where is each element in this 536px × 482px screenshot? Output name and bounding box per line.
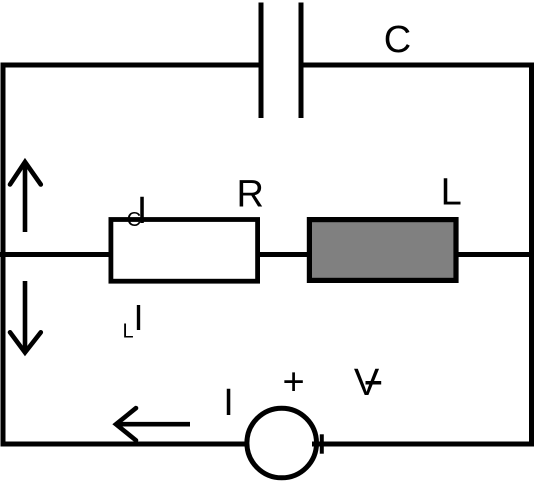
svg-text:I: I [137, 190, 148, 232]
svg-text:L: L [123, 321, 134, 343]
svg-text:I: I [223, 382, 234, 424]
svg-text:I: I [134, 297, 144, 338]
svg-text:R: R [237, 173, 264, 215]
svg-text:+: + [283, 362, 305, 404]
svg-text:C: C [384, 19, 411, 61]
svg-text:L: L [441, 172, 462, 214]
